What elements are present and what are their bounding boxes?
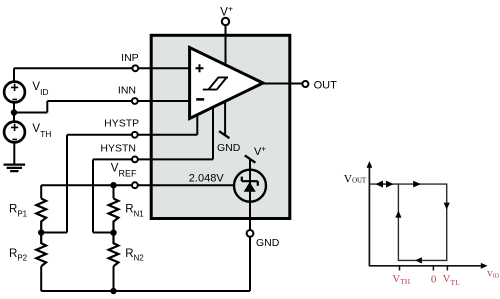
svg-text:RP2: RP2	[9, 248, 28, 263]
graph: x axis	[369, 265, 481, 267]
svg-text:HYSTP: HYSTP	[104, 117, 139, 129]
wire HYSTN net	[93, 107, 213, 232]
svg-text:VOUT: VOUT	[344, 173, 367, 185]
svg-text:VTH: VTH	[32, 123, 51, 139]
ground	[4, 143, 26, 172]
resistor RP1	[36, 199, 46, 233]
wire VREF net	[41, 185, 233, 198]
graph: y axis	[368, 166, 370, 266]
node junction RP1/RP2	[38, 229, 44, 235]
op-amp GND pin lead	[224, 102, 226, 135]
graph: hysteresis loop	[369, 184, 446, 260]
graph: double arrow on top	[377, 183, 392, 185]
pin INN	[132, 98, 138, 104]
zener diode D1	[242, 169, 258, 202]
IC body box	[151, 35, 290, 218]
resistor RN1	[109, 199, 119, 233]
pin VREF	[132, 182, 138, 188]
reference V+ slash	[245, 155, 256, 162]
op-amp minus input mark	[196, 98, 204, 101]
resistor RP2	[36, 233, 46, 267]
GND pin slash	[219, 131, 229, 138]
voltage source VID	[4, 82, 25, 103]
terminal OUT	[302, 81, 308, 87]
terminal V+ top	[222, 18, 229, 25]
op-amp plus input mark	[196, 64, 204, 72]
svg-text:VREF: VREF	[111, 162, 137, 178]
voltage source VTH	[4, 122, 25, 143]
svg-text:0: 0	[431, 274, 437, 286]
reference diode circle U2	[234, 170, 266, 202]
svg-text:INP: INP	[121, 52, 139, 64]
svg-text:V+: V+	[220, 3, 233, 18]
wire bottom ground rail	[41, 237, 250, 291]
reference V+ lead	[249, 159, 251, 170]
svg-text:RP1: RP1	[9, 204, 28, 219]
graph: axis ticks	[400, 266, 448, 271]
svg-text:HYSTN: HYSTN	[100, 143, 136, 155]
wire HYSTP net	[41, 115, 197, 233]
node junction RN2 bottom	[110, 288, 116, 294]
graph: down arrow on right edge	[444, 203, 450, 210]
op-amp U1 comparator	[190, 48, 263, 119]
pin INP	[132, 65, 138, 71]
pin HYSTN	[132, 157, 138, 163]
svg-text:INN: INN	[118, 84, 136, 96]
node junction RN1/RN2	[110, 230, 116, 236]
svg-text:VID: VID	[487, 270, 499, 280]
wire output	[263, 83, 302, 85]
svg-text:VID: VID	[32, 81, 48, 97]
svg-text:VTL: VTL	[443, 273, 461, 287]
wire INP net	[14, 68, 190, 82]
graph: left arrow on bottom segment	[415, 257, 422, 263]
svg-text:GND: GND	[217, 142, 241, 154]
node junction VID/VTH	[11, 109, 17, 115]
svg-text:GND: GND	[256, 237, 280, 249]
svg-text:RN1: RN1	[125, 204, 144, 219]
svg-text:OUT: OUT	[314, 79, 338, 91]
graph: right arrow on top segment	[413, 181, 421, 188]
wire INN net	[14, 101, 190, 122]
terminal GND bottom	[247, 230, 254, 237]
hysteresis symbol	[203, 77, 228, 89]
pin HYSTP	[132, 132, 138, 138]
svg-text:RN2: RN2	[125, 248, 144, 263]
wire reference to GND pin	[249, 202, 251, 230]
svg-text:2.048V: 2.048V	[189, 172, 225, 184]
wire V+ supply into op-amp	[225, 25, 227, 67]
graph: up arrow on left edge	[395, 211, 401, 218]
svg-text:VTH: VTH	[392, 273, 410, 286]
node junction RN1 top	[110, 182, 116, 188]
resistor RN2	[109, 233, 119, 267]
